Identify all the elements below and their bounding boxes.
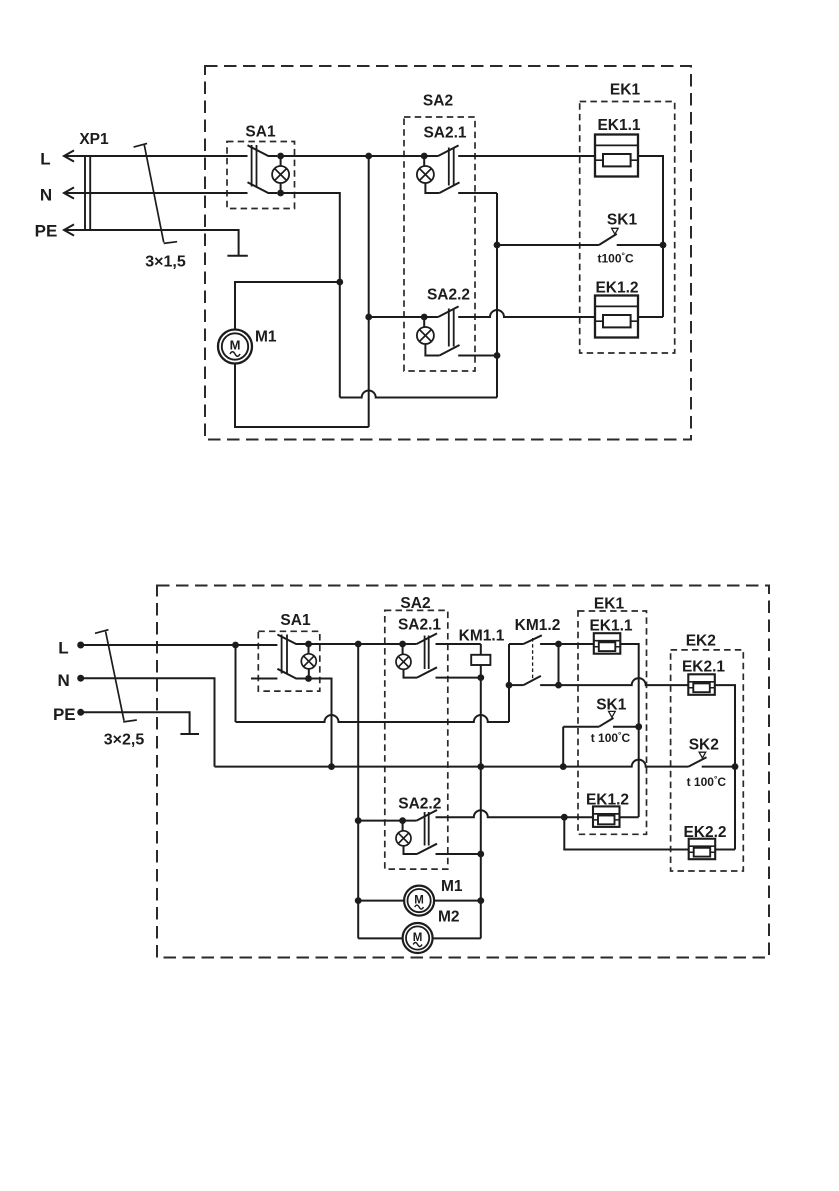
svg-text:EK1: EK1 — [610, 82, 641, 99]
svg-text:KM1.1: KM1.1 — [459, 628, 505, 645]
svg-text:SA2.2: SA2.2 — [427, 287, 470, 304]
svg-text:PE: PE — [35, 222, 58, 241]
svg-text:M2: M2 — [438, 909, 460, 926]
svg-text:SA2: SA2 — [400, 595, 430, 612]
svg-text:M1: M1 — [441, 878, 463, 895]
svg-text:EK1.1: EK1.1 — [597, 117, 640, 134]
svg-text:XP1: XP1 — [79, 131, 109, 148]
svg-text:KM1.2: KM1.2 — [515, 617, 561, 634]
svg-text:M1: M1 — [255, 329, 277, 346]
svg-text:SK1: SK1 — [596, 697, 627, 714]
svg-text:L: L — [40, 150, 50, 169]
svg-text:N: N — [57, 671, 69, 690]
svg-text:EK1.1: EK1.1 — [589, 618, 632, 635]
svg-text:3×1,5: 3×1,5 — [145, 254, 186, 271]
svg-text:SK1: SK1 — [607, 212, 638, 229]
svg-text:EK1.2: EK1.2 — [595, 280, 638, 297]
svg-text:t 100°C: t 100°C — [687, 774, 727, 789]
svg-text:SA2: SA2 — [423, 93, 453, 110]
svg-text:EK2: EK2 — [686, 633, 716, 650]
svg-text:SA1: SA1 — [280, 612, 311, 629]
svg-text:EK1.2: EK1.2 — [586, 792, 629, 809]
svg-text:SA2.2: SA2.2 — [398, 796, 441, 813]
svg-text:SK2: SK2 — [689, 737, 719, 754]
svg-text:L: L — [58, 639, 68, 658]
svg-text:EK2.2: EK2.2 — [683, 824, 726, 841]
svg-text:EK1: EK1 — [594, 596, 625, 613]
svg-text:SA1: SA1 — [245, 124, 276, 141]
svg-text:PE: PE — [53, 705, 76, 724]
svg-text:SA2.1: SA2.1 — [398, 617, 441, 634]
svg-text:EK2.1: EK2.1 — [682, 659, 725, 676]
svg-text:t100°C: t100°C — [598, 251, 634, 266]
svg-text:3×2,5: 3×2,5 — [104, 732, 145, 749]
svg-text:SA2.1: SA2.1 — [423, 125, 466, 142]
svg-text:t 100°C: t 100°C — [591, 730, 631, 745]
svg-text:N: N — [40, 186, 52, 205]
